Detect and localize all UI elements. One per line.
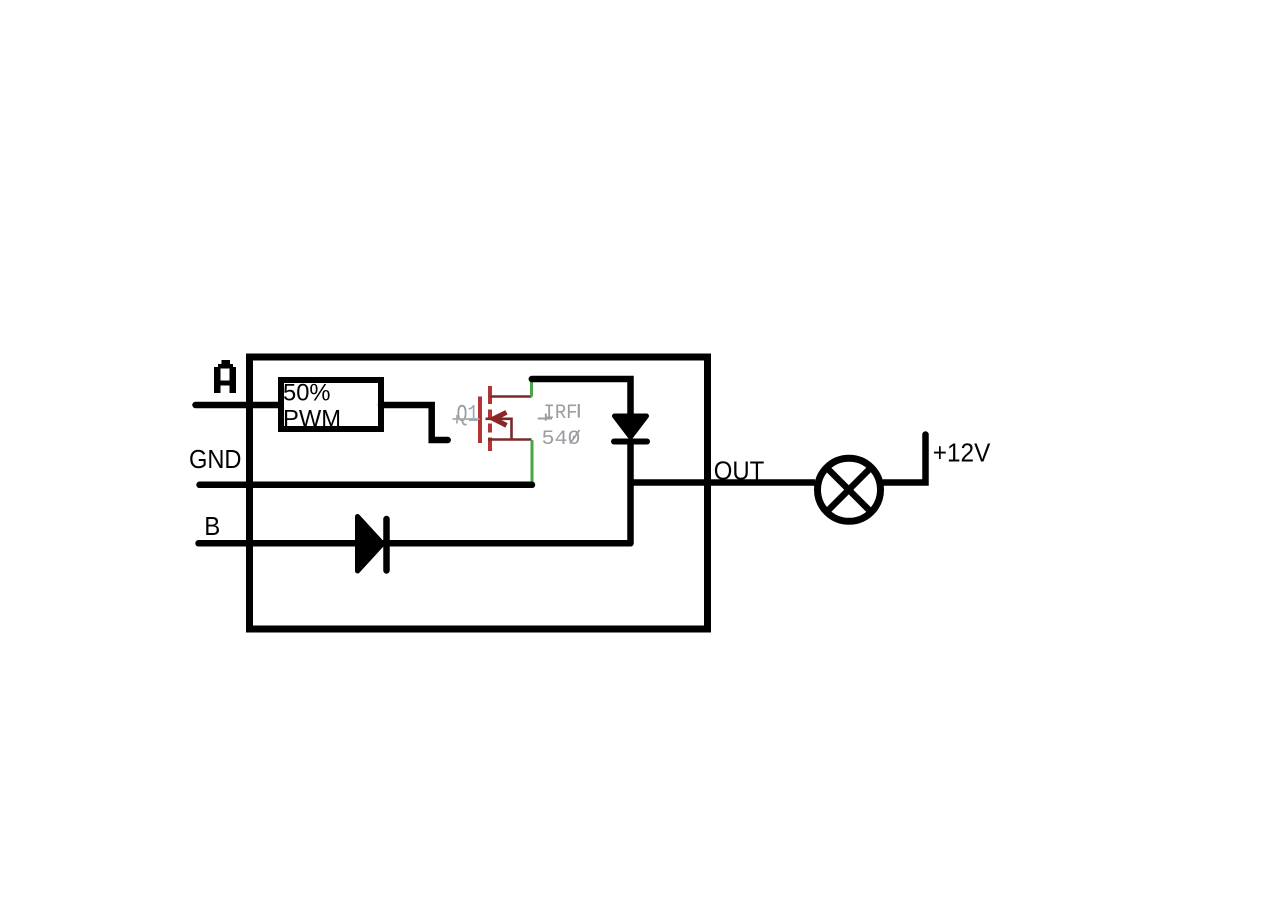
diode D1 cathode bar	[614, 439, 647, 445]
svg-text:B: B	[204, 511, 220, 541]
label 540 zero slash	[570, 430, 580, 444]
wire PWM output to gate	[381, 405, 448, 440]
transistor Q1 source stub	[488, 438, 532, 441]
svg-text:+12V: +12V	[933, 437, 991, 467]
wire B	[199, 540, 631, 547]
svg-text:GND: GND	[189, 444, 242, 474]
transistor Q1 gate bar	[478, 397, 482, 444]
wire drain top to diode D1	[532, 379, 631, 414]
lamp circle	[818, 458, 881, 521]
diode D1 triangle	[615, 416, 647, 437]
svg-text:Q1: Q1	[457, 402, 479, 429]
label IRF540 partial char	[578, 404, 580, 418]
node A label	[214, 360, 236, 393]
net drain green	[530, 381, 533, 397]
svg-text:IRF: IRF	[544, 402, 578, 425]
diode D2 cathode bar	[383, 519, 390, 571]
PWM block box	[281, 380, 381, 429]
transistor Q1 channel dashes	[488, 386, 492, 451]
transistor Q1 drain stub	[490, 395, 532, 398]
wire GND	[200, 482, 533, 489]
svg-text:50%: 50%	[283, 380, 331, 407]
Q1 origin cross	[453, 415, 480, 424]
wire diode D1 to OUT node and down to B	[627, 441, 634, 543]
lamp cross	[827, 468, 871, 512]
wire OUT	[631, 479, 816, 486]
wire A input	[196, 402, 283, 409]
enclosure box	[250, 357, 708, 629]
wire lamp to +12V	[884, 435, 926, 483]
transistor Q1 bulk line	[486, 419, 512, 440]
net source green	[531, 440, 534, 483]
IRF540 origin cross	[538, 414, 552, 421]
transistor Q1 bulk arrow	[494, 412, 507, 425]
svg-text:540: 540	[542, 428, 581, 451]
diode D2 triangle	[358, 517, 383, 572]
svg-text:PWM: PWM	[283, 405, 341, 432]
